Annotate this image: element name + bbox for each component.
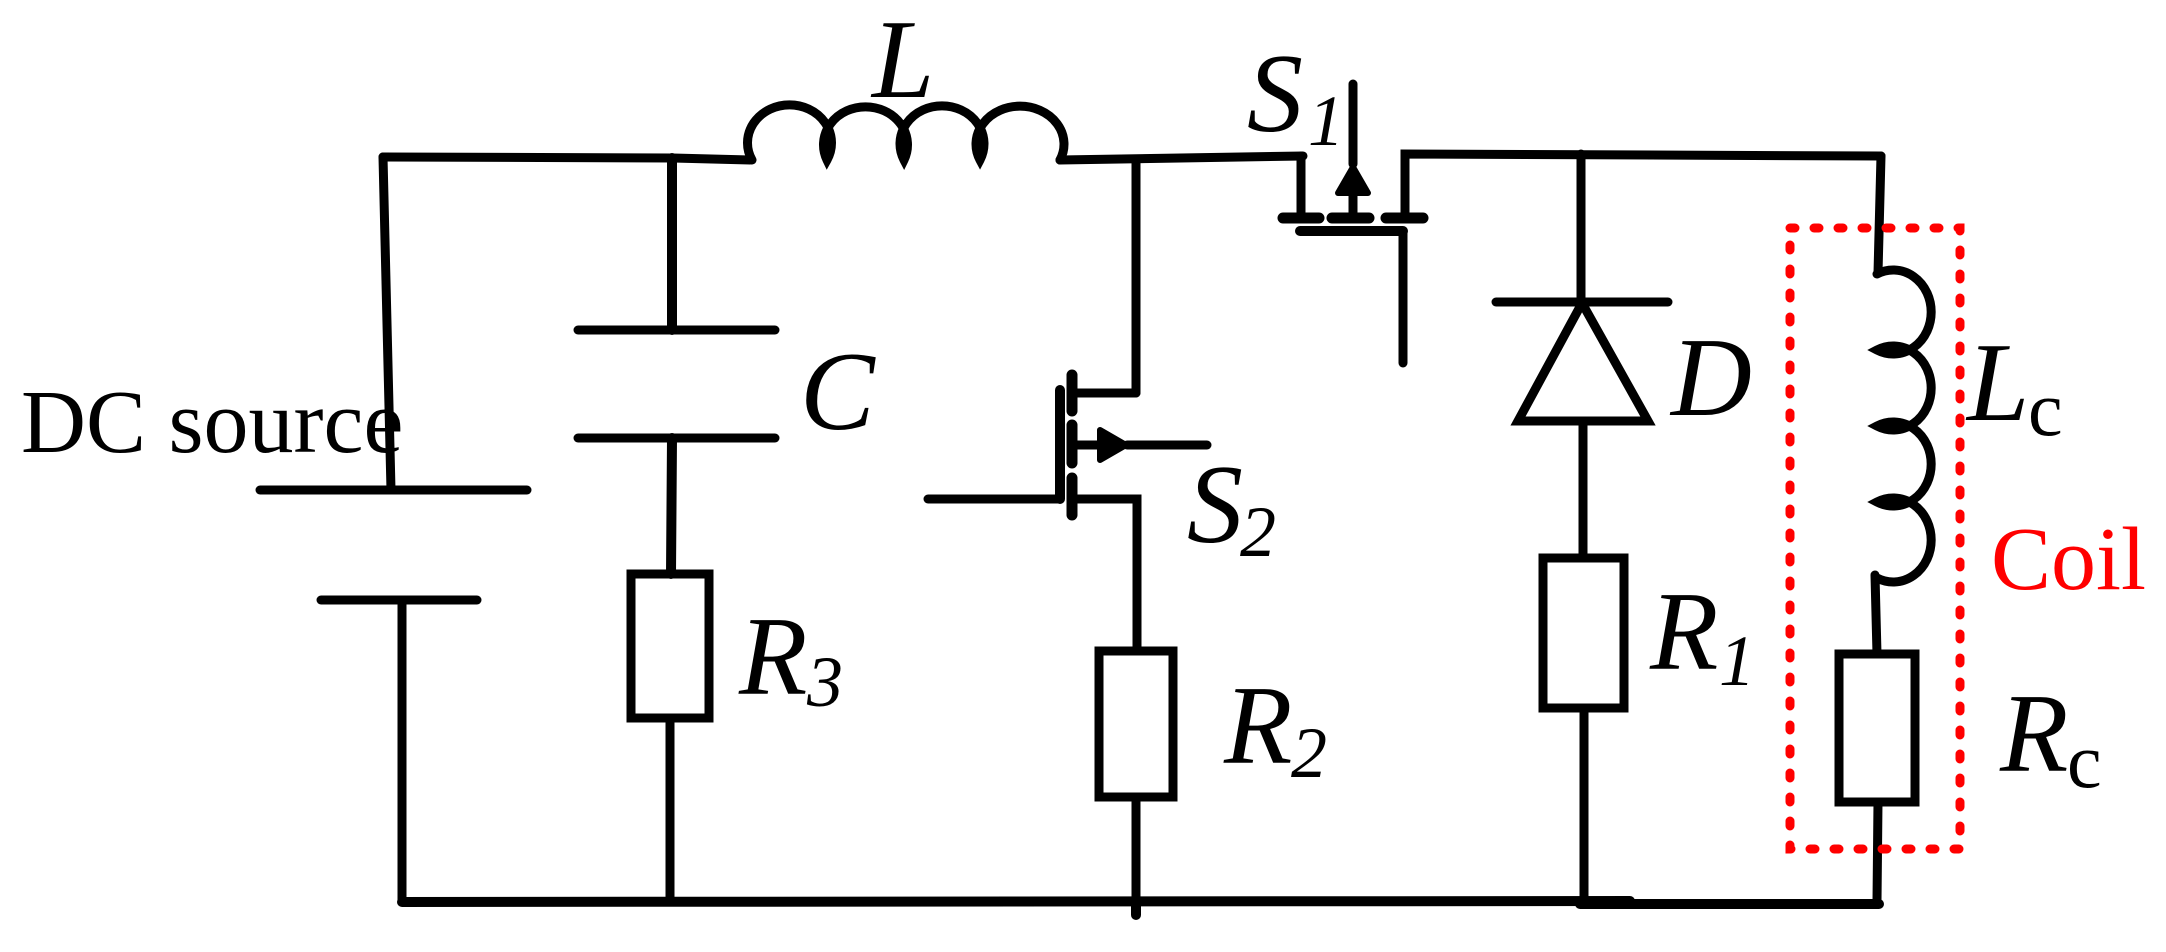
- svg-text:D: D: [1669, 316, 1752, 440]
- svg-text:1: 1: [1308, 81, 1344, 161]
- svg-text:c: c: [2067, 717, 2102, 804]
- svg-text:2: 2: [1240, 492, 1276, 572]
- transistor S2 source lead: [1072, 499, 1137, 651]
- wire inductor to S1: [1060, 156, 1303, 160]
- transistor S2 channel dash top: [1067, 375, 1078, 411]
- transistor S1 body lead: [1349, 84, 1358, 164]
- resistor R2 body: [1099, 651, 1173, 797]
- wire battery negative to bottom rail: [398, 600, 407, 902]
- transistor S1 left lead: [1297, 156, 1306, 214]
- transistor S1 gate lead: [1399, 231, 1408, 363]
- resistor Rc body: [1839, 654, 1915, 802]
- svg-text:L: L: [1965, 321, 2029, 445]
- transistor S1 channel dash middle: [1332, 213, 1369, 224]
- wire coil drop: [1878, 156, 1881, 273]
- svg-text:C: C: [800, 330, 876, 454]
- inductor L winding: [748, 105, 1065, 160]
- transistor S2 body lead: [1073, 441, 1100, 450]
- wire diode drop: [1577, 154, 1586, 302]
- wire R2 to bottom rail: [1132, 797, 1141, 902]
- wire capacitor drop: [667, 158, 677, 330]
- svg-text:L: L: [870, 0, 934, 122]
- svg-text:1: 1: [1719, 621, 1755, 701]
- svg-text:S: S: [1247, 32, 1303, 156]
- capacitor C top plate: [578, 326, 775, 335]
- svg-text:3: 3: [806, 642, 843, 722]
- wire Lc to Rc: [1875, 575, 1877, 654]
- transistor S2 gate lead: [928, 495, 1060, 504]
- transistor S2 channel dash bottom: [1067, 478, 1078, 515]
- node stub below bottom rail: [1131, 902, 1141, 915]
- battery bottom plate: [321, 596, 477, 605]
- wire R1 to bottom rail: [1580, 708, 1589, 902]
- svg-text:R: R: [1999, 672, 2068, 796]
- diode D triangle: [1518, 303, 1648, 421]
- transistor S2 gate bar: [1055, 390, 1065, 499]
- resistor R3 body: [631, 574, 709, 718]
- capacitor C bottom plate: [578, 434, 775, 443]
- wire R3 to bottom rail: [666, 718, 675, 902]
- resistor R1 body: [1543, 558, 1624, 708]
- bottom rail wire right segment: [1580, 899, 1879, 909]
- transistor S1 body lead lower: [1349, 196, 1358, 218]
- svg-text:c: c: [2028, 365, 2063, 452]
- transistor S2 body lead right: [1127, 441, 1207, 450]
- wire Rc to bottom rail: [1877, 802, 1878, 901]
- svg-text:R: R: [1649, 570, 1718, 694]
- inductor Lc winding: [1877, 270, 1931, 582]
- transistor S2 body arrow: [1100, 430, 1126, 460]
- transistor S1 right lead: [1405, 154, 1881, 214]
- svg-text:Coil: Coil: [1991, 510, 2146, 609]
- svg-text:R: R: [1223, 664, 1292, 788]
- transistor S1 channel dash left: [1283, 213, 1319, 224]
- transistor S1 gate bar: [1300, 226, 1403, 236]
- svg-text:DC source: DC source: [21, 373, 403, 472]
- battery top plate: [260, 486, 527, 495]
- svg-text:R: R: [738, 595, 807, 719]
- transistor S1 channel dash right: [1386, 213, 1423, 224]
- transistor S2 drain lead: [1072, 389, 1136, 398]
- wire capacitor to R3: [671, 438, 672, 574]
- svg-text:2: 2: [1291, 713, 1327, 793]
- svg-text:S: S: [1187, 443, 1243, 567]
- wire top-left vertical to battery: [383, 157, 391, 490]
- wire top-left horizontal: [383, 157, 750, 160]
- wire diode to R1: [1579, 421, 1588, 558]
- coil boundary red dashed box: [1790, 228, 1960, 849]
- transistor S1 body arrow: [1338, 167, 1368, 193]
- diode D cathode bar: [1496, 298, 1668, 307]
- wire S2 drain drop junction: [1132, 159, 1141, 393]
- bottom rail wire: [402, 901, 1630, 902]
- transistor S2 channel dash middle: [1067, 425, 1078, 463]
